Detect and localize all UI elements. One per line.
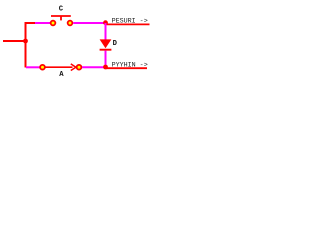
wire: top magenta to switch C — [35, 22, 50, 24]
switch A left contact — [40, 65, 45, 70]
switch C left contact — [51, 21, 56, 26]
switch C right contact — [68, 21, 73, 26]
wire: magenta vertical into diode — [105, 23, 107, 40]
wire: PYYHIN net underline — [106, 67, 147, 69]
switch A right contact — [77, 65, 82, 70]
wire: top corner red stub — [25, 22, 36, 24]
svg-text:PESURI ->: PESURI -> — [112, 18, 148, 26]
wire: left feed horizontal — [3, 40, 26, 42]
switch C actuator bar — [51, 15, 71, 17]
wire: magenta from switch A to bottom junction — [82, 66, 104, 68]
svg-text:D: D — [113, 40, 118, 48]
diode D cathode bar — [100, 49, 112, 51]
node: top junction dot — [103, 20, 108, 25]
svg-text:C: C — [59, 6, 64, 14]
svg-text:PYYHIN ->: PYYHIN -> — [112, 62, 148, 70]
background — [0, 0, 150, 86]
switch A arm — [45, 66, 72, 68]
wire: left vertical bus — [25, 23, 27, 68]
node: bottom junction dot — [103, 65, 108, 70]
switch A arrowhead — [71, 64, 76, 71]
node: left junction dot — [23, 39, 28, 44]
diode D triangle — [100, 39, 112, 48]
svg-text:A: A — [59, 71, 64, 79]
wire: magenta from switch C to top junction — [73, 22, 104, 24]
wire: PESURI net underline — [106, 23, 150, 25]
switch C actuator stem — [60, 17, 62, 21]
wire: magenta vertical from diode to bottom junction — [105, 51, 107, 67]
wire: bottom magenta from corner to switch A — [26, 66, 40, 68]
